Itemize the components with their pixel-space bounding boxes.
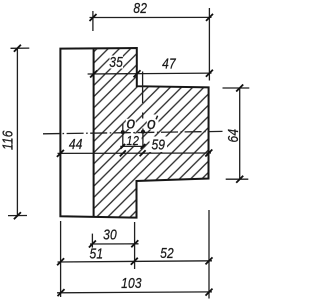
svg-text:51: 51 — [90, 246, 104, 262]
svg-text:o: o — [126, 114, 135, 133]
svg-text:64: 64 — [225, 129, 241, 143]
dimension 64 ticks — [236, 85, 243, 183]
dimension 44/59 ticks — [57, 150, 212, 157]
svg-text:116: 116 — [0, 130, 16, 150]
dimension 12 ticks — [120, 144, 145, 149]
dimension 82 extension lines — [93, 8, 209, 81]
point o' — [141, 130, 145, 134]
dimension 116 line — [16, 48, 18, 216]
dimension 12 line — [120, 145, 144, 147]
dimension 82 line — [90, 16, 212, 18]
dimension 35/47 ticks — [90, 70, 213, 78]
horizontal centerline (dash-dot) — [43, 131, 223, 133]
svg-text:59: 59 — [151, 136, 165, 152]
hatching of section — [94, 48, 209, 218]
dimension 64 extension lines — [223, 88, 250, 179]
inner material boundary — [93, 48, 95, 216]
svg-text:35: 35 — [109, 54, 123, 70]
point o' extension line — [142, 72, 144, 147]
svg-text:12: 12 — [126, 133, 139, 148]
dimension 30 line — [90, 243, 139, 245]
svg-text:82: 82 — [133, 0, 147, 16]
svg-text:52: 52 — [160, 245, 174, 261]
dimension 103 line — [57, 291, 212, 294]
svg-text:30: 30 — [103, 226, 117, 242]
dimension 51/52 ticks — [57, 257, 212, 265]
white halo under labels inside hatch — [110, 56, 168, 153]
point o extension line — [122, 124, 124, 147]
svg-text:o: o — [147, 114, 156, 133]
dimension 116 ticks — [14, 45, 21, 220]
svg-text:44: 44 — [69, 136, 83, 152]
outline of section — [60, 48, 208, 218]
svg-text:47: 47 — [162, 55, 176, 71]
dimension 30 ticks — [89, 240, 138, 247]
dimension 51/52 line — [58, 261, 213, 262]
dimension 44/59 chain line — [58, 152, 212, 154]
dimension 82 ticks — [90, 14, 214, 21]
dimension 35/47 line — [88, 72, 212, 75]
bottom extension lines — [61, 210, 209, 299]
dimension 64 line — [239, 88, 241, 180]
dimension 116 extension lines — [8, 48, 29, 216]
point o — [121, 130, 125, 134]
svg-text:103: 103 — [121, 275, 142, 291]
dimension 103 ticks — [58, 289, 213, 297]
